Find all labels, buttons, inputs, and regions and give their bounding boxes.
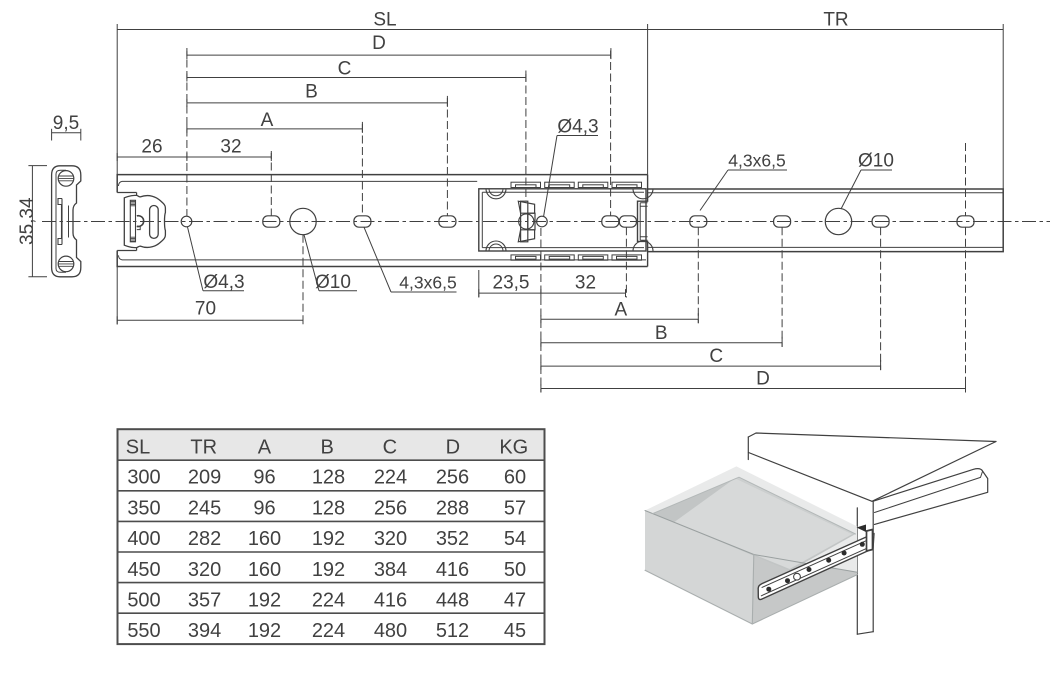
svg-text:128: 128 <box>312 467 345 489</box>
svg-text:224: 224 <box>312 620 345 642</box>
svg-text:C: C <box>709 346 723 367</box>
svg-text:45: 45 <box>504 620 526 642</box>
extension line SL-TR middle <box>647 24 649 175</box>
svg-text:512: 512 <box>436 620 469 642</box>
svg-text:TR: TR <box>823 10 848 31</box>
drawer top rim face <box>645 466 857 572</box>
drawer cavity floor <box>674 478 852 569</box>
extension dashed latch top <box>525 74 527 201</box>
svg-text:282: 282 <box>188 528 221 550</box>
ball cage pads bottom <box>511 255 642 260</box>
callout 4.3x6.5 right <box>700 151 787 211</box>
table grid <box>118 429 545 644</box>
cabinet back stile <box>857 501 873 634</box>
drawer rail right section <box>648 189 1004 252</box>
svg-text:192: 192 <box>312 528 345 550</box>
svg-text:224: 224 <box>312 590 345 612</box>
extension dashed hole43 carriage down <box>540 228 542 393</box>
svg-text:320: 320 <box>374 528 407 550</box>
dimension SL <box>117 10 647 31</box>
drawer cavity back wall <box>735 477 856 534</box>
svg-text:4,3x6,5: 4,3x6,5 <box>399 273 456 293</box>
dimension C bottom <box>541 346 881 370</box>
svg-text:394: 394 <box>188 620 221 642</box>
svg-text:Ø4,3: Ø4,3 <box>203 272 244 293</box>
extension dashed slot3 top <box>446 98 448 216</box>
svg-text:B: B <box>305 81 318 102</box>
slot 4.3x6.5 cabinet rail 2 <box>354 216 371 227</box>
dimension D bottom <box>541 369 966 393</box>
extension dashed first hole <box>186 48 188 216</box>
svg-text:26: 26 <box>141 137 162 158</box>
hole D10 cabinet rail <box>290 208 316 234</box>
svg-text:54: 54 <box>504 528 526 550</box>
cross-section ball top <box>58 171 74 187</box>
hole D4.3 carriage <box>537 216 548 227</box>
drawer rail clip left end <box>640 203 647 240</box>
svg-text:450: 450 <box>127 559 160 581</box>
dimension 9.5 <box>52 113 81 141</box>
dimension TR <box>648 10 1004 31</box>
cross-section ball bottom <box>58 256 74 272</box>
svg-text:KG: KG <box>499 437 528 459</box>
svg-text:32: 32 <box>220 137 241 158</box>
dimension 23.5 <box>479 273 541 298</box>
svg-text:4,3x6,5: 4,3x6,5 <box>728 151 785 171</box>
dimension 32 bottom <box>541 273 626 298</box>
svg-text:35,34: 35,34 <box>17 197 38 245</box>
dimension B bottom <box>541 323 782 347</box>
extension line SL left <box>116 24 118 175</box>
drawer cavity walls <box>653 477 856 571</box>
svg-text:D: D <box>372 33 386 54</box>
svg-text:SL: SL <box>373 10 396 31</box>
extension dashed slotpair right down <box>625 227 627 297</box>
cross-section inner member <box>58 199 69 245</box>
svg-text:256: 256 <box>374 497 407 519</box>
table header row <box>126 437 528 459</box>
extension dashed slot1 top <box>270 151 272 216</box>
dimension 26 <box>117 137 187 162</box>
svg-text:D: D <box>446 437 460 459</box>
slot pair carriage <box>602 216 637 227</box>
svg-text:400: 400 <box>127 528 160 550</box>
table row SL300 <box>127 467 526 489</box>
cross-section outer profile <box>52 166 81 277</box>
table row SL550 <box>127 620 526 642</box>
svg-text:47: 47 <box>504 590 526 612</box>
extension line 23.5 left <box>478 270 480 298</box>
table row SL450 <box>127 559 526 581</box>
svg-text:357: 357 <box>188 590 221 612</box>
table header background <box>118 429 545 460</box>
svg-text:416: 416 <box>374 590 407 612</box>
svg-text:9,5: 9,5 <box>53 113 79 134</box>
cabinet slide member bar <box>870 469 988 526</box>
svg-text:50: 50 <box>504 559 526 581</box>
svg-text:192: 192 <box>248 620 281 642</box>
svg-text:96: 96 <box>253 467 275 489</box>
dimension A bottom <box>541 300 698 324</box>
table row SL500 <box>127 590 526 612</box>
extension dashed D10 left bottom <box>302 235 304 325</box>
svg-text:23,5: 23,5 <box>493 273 530 294</box>
extension line 70 left <box>116 267 118 325</box>
cabinet rail outer profile left <box>117 175 647 267</box>
svg-text:Ø10: Ø10 <box>315 272 351 293</box>
slot 4.3x6.5 drawer rail 3 <box>872 216 889 227</box>
dimension A top <box>187 110 363 133</box>
dimension 32 top <box>187 137 271 162</box>
svg-text:550: 550 <box>127 620 160 642</box>
svg-text:57: 57 <box>504 497 526 519</box>
svg-text:C: C <box>383 437 397 459</box>
svg-text:32: 32 <box>575 273 596 294</box>
svg-text:60: 60 <box>504 467 526 489</box>
svg-text:TR: TR <box>190 437 217 459</box>
svg-text:A: A <box>258 437 272 459</box>
svg-text:209: 209 <box>188 467 221 489</box>
dimension 35.34 <box>17 166 47 277</box>
drawer box edges <box>645 477 857 624</box>
extension dashed slotpair top <box>610 51 612 216</box>
dimension B top <box>187 81 448 107</box>
drawer rail rear clip <box>857 525 873 552</box>
extension dashed slot A right <box>697 227 699 323</box>
svg-text:B: B <box>655 323 668 344</box>
extension dashed slot D right <box>965 143 967 393</box>
svg-text:C: C <box>338 58 352 79</box>
table row SL400 <box>127 528 526 550</box>
svg-text:300: 300 <box>127 467 160 489</box>
drawer slide rail mounted <box>758 534 874 600</box>
svg-text:352: 352 <box>436 528 469 550</box>
svg-text:245: 245 <box>188 497 221 519</box>
svg-text:320: 320 <box>188 559 221 581</box>
table row SL350 <box>127 497 526 519</box>
svg-text:Ø10: Ø10 <box>858 151 894 172</box>
drawer right face <box>752 555 857 625</box>
svg-text:70: 70 <box>195 299 216 320</box>
svg-text:96: 96 <box>253 497 275 519</box>
extension dashed slot2 top <box>361 124 363 216</box>
cabinet top panel band <box>748 433 996 501</box>
callout D4.3 left <box>188 227 245 293</box>
svg-text:448: 448 <box>436 590 469 612</box>
svg-text:192: 192 <box>312 559 345 581</box>
hole D10 drawer rail <box>825 208 851 234</box>
svg-text:256: 256 <box>436 467 469 489</box>
hole D4.3 cabinet rail <box>181 216 192 227</box>
svg-text:Ø4,3: Ø4,3 <box>557 117 598 138</box>
drawer front face <box>645 511 754 625</box>
front mounting bracket <box>124 193 165 251</box>
callout D4.3 middle <box>544 117 599 218</box>
callout D10 left <box>304 235 357 293</box>
callout 4.3x6.5 left <box>364 227 457 292</box>
svg-text:500: 500 <box>127 590 160 612</box>
detent latch <box>518 201 535 242</box>
svg-text:B: B <box>321 437 334 459</box>
svg-text:A: A <box>261 110 274 131</box>
slot 4.3x6.5 drawer rail 1 <box>690 216 707 227</box>
svg-text:224: 224 <box>374 467 407 489</box>
extension dashed slot C right <box>880 227 882 370</box>
dimension D top <box>187 33 611 59</box>
extension line TR right <box>1002 24 1004 189</box>
svg-text:128: 128 <box>312 497 345 519</box>
centerline main axis <box>42 221 1050 223</box>
slot 4.3x6.5 drawer rail 2 <box>774 216 791 227</box>
extension dashed slot B right <box>781 227 783 347</box>
slot 4.3x6.5 drawer rail 4 <box>957 216 974 227</box>
svg-text:480: 480 <box>374 620 407 642</box>
svg-text:D: D <box>756 369 770 390</box>
svg-text:160: 160 <box>248 559 281 581</box>
ball cage pads top <box>511 182 642 187</box>
dimension 70 <box>117 299 303 325</box>
svg-text:350: 350 <box>127 497 160 519</box>
svg-text:288: 288 <box>436 497 469 519</box>
svg-text:192: 192 <box>248 590 281 612</box>
slot 4.3x6.5 cabinet rail 1 <box>263 216 280 227</box>
svg-text:160: 160 <box>248 528 281 550</box>
slot 4.3x6.5 cabinet rail 3 <box>439 216 456 227</box>
svg-text:416: 416 <box>436 559 469 581</box>
dimension C top <box>187 58 526 81</box>
callout D10 right <box>841 151 894 210</box>
carriage body <box>479 175 653 267</box>
svg-text:384: 384 <box>374 559 407 581</box>
svg-text:SL: SL <box>126 437 150 459</box>
svg-text:A: A <box>615 300 628 321</box>
